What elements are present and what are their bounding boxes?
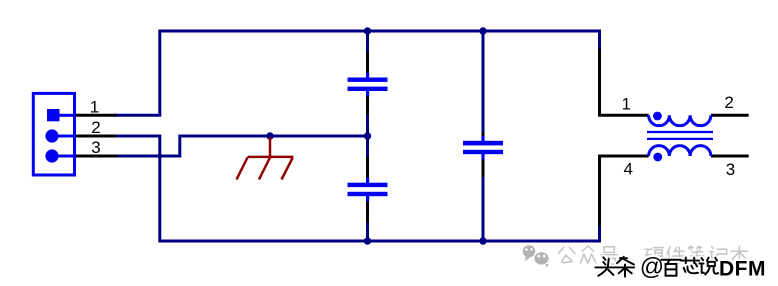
svg-text:@: @: [640, 254, 664, 281]
watermark text toutiao outline: [595, 257, 718, 277]
wire C2 to bottom rail: [366, 221, 369, 241]
transformer T1 core: [647, 132, 713, 139]
capacitor C3: [463, 136, 503, 160]
watermark wechat icon: [523, 245, 550, 267]
capacitor C3 pin bottom: [482, 159, 485, 178]
connector J1 pin1 square: [47, 109, 60, 121]
svg-text:1: 1: [90, 97, 99, 116]
transformer T1 secondary winding: [649, 146, 711, 156]
svg-text:2: 2: [724, 93, 733, 112]
watermark text toutiao: [595, 257, 718, 277]
junction top rail C1: [364, 27, 371, 34]
transformer T1 pin1 lead: [600, 49, 649, 115]
connector J1 pin2 lead: [75, 135, 117, 138]
transformer T1 primary winding: [649, 115, 711, 125]
transformer T1 pin3 lead: [711, 155, 749, 158]
svg-text:3: 3: [91, 138, 100, 157]
transformer T1 pin4 lead: [600, 156, 649, 226]
junction bottom rail C1 chain: [364, 237, 371, 244]
capacitor C2: [348, 178, 388, 202]
svg-text:2: 2: [91, 118, 100, 137]
connector J1 pin3 contact: [45, 149, 58, 162]
wire C3 to bottom rail: [482, 176, 485, 241]
connector J1 body: [33, 93, 74, 175]
wire top rail: [158, 30, 601, 33]
junction mid node C1-C2: [364, 132, 371, 139]
capacitor C1 pin top: [366, 52, 369, 74]
connector J1 pin3 lead: [75, 155, 119, 158]
wire pin1 to top rail: [114, 31, 160, 115]
wire top rail to T1 pin1: [598, 31, 601, 50]
svg-text:1: 1: [621, 95, 630, 114]
capacitor C3 pin top: [482, 132, 485, 137]
wire top rail to C3: [482, 31, 485, 133]
capacitor C1 pin bottom: [366, 92, 369, 115]
junction ground node: [266, 132, 273, 139]
wire bottom rail: [158, 240, 601, 243]
capacitor C2 pin bottom: [366, 201, 369, 223]
wire pin2 to bottom rail: [114, 136, 160, 241]
svg-text:3: 3: [726, 160, 735, 179]
connector J1 pin2 contact: [45, 129, 58, 142]
wire top rail to C1: [366, 31, 369, 53]
wire C1 to mid node: [366, 114, 369, 136]
wire bottom rail to T1 pin4: [598, 225, 601, 241]
capacitor C2 pin top: [366, 157, 369, 179]
wire mid node to C2: [366, 136, 369, 158]
transformer T1 pin2 lead: [711, 114, 749, 117]
transformer T1 secondary polarity dot: [653, 153, 662, 162]
ground symbol: [237, 137, 294, 180]
capacitor C1: [348, 73, 388, 97]
svg-text:4: 4: [623, 160, 632, 179]
connector J1 pin1 lead: [75, 114, 117, 117]
wire pin3 to mid node: [116, 136, 368, 156]
junction top rail C3: [479, 27, 486, 34]
svg-text:DFM: DFM: [719, 258, 766, 281]
junction bottom rail C3: [479, 237, 486, 244]
watermark text gongzhonghao: [558, 246, 748, 264]
transformer T1 primary polarity dot: [653, 112, 662, 121]
